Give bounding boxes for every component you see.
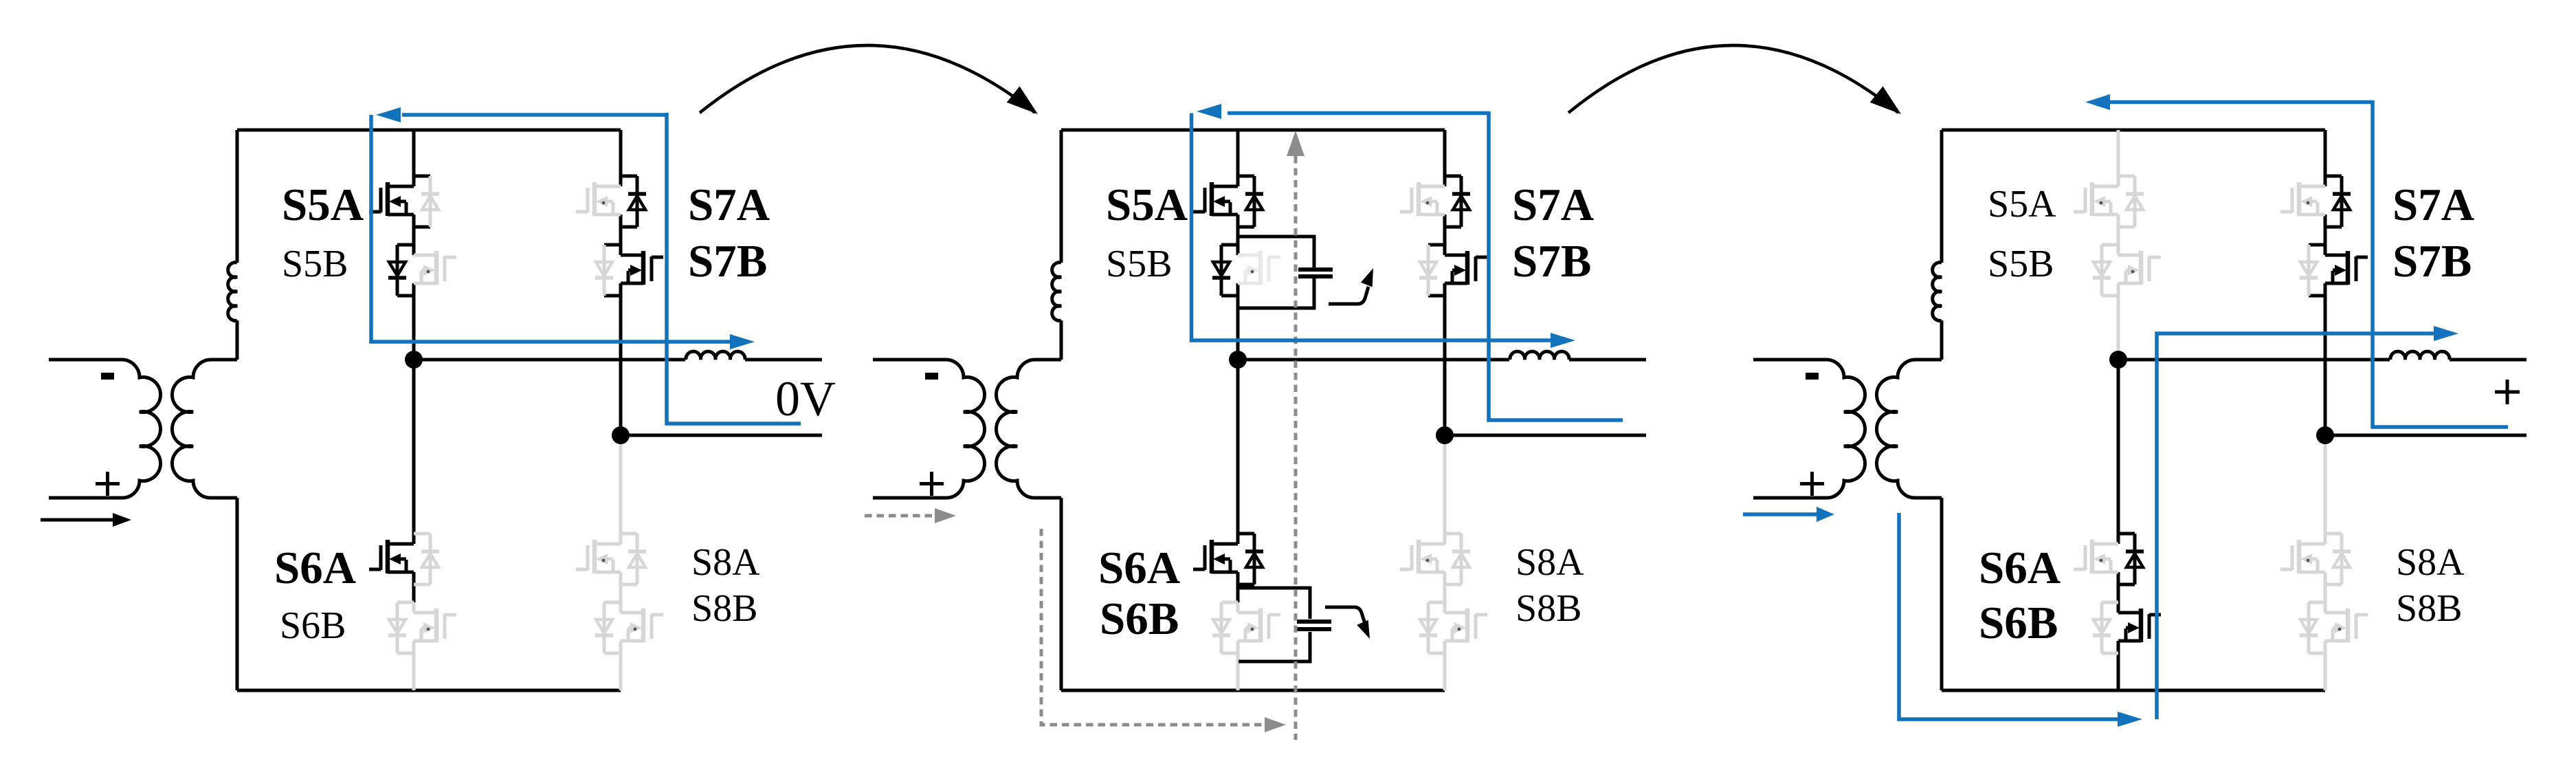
- label: minus polarity of T3 primary: [1806, 373, 1819, 380]
- current path (blue): arrowhead to output inductor (panel 3): [2434, 326, 2458, 341]
- inductor: commutation inductor on left rail (panel 1): [228, 263, 237, 321]
- svg-text:S6B: S6B: [1979, 598, 2058, 648]
- wire: right switch-leg segment y632-791 (panel 1): [619, 435, 623, 544]
- svg-text:S7B: S7B: [1512, 236, 1591, 287]
- wire: left rail to secondary top (panel 3): [1940, 320, 1944, 360]
- wire: output top rail from switch-node A (panel 1): [414, 358, 685, 362]
- diode S7B body diode (panel 1): [595, 245, 613, 296]
- transistor S6A MOSFET (panel 2): [1193, 540, 1238, 573]
- diode S5A body diode (panel 1): [421, 176, 439, 227]
- capacitor: snubber across S5B (panel 2): [1239, 237, 1314, 308]
- wire: S7B branch stubs (panel 3): [2309, 245, 2325, 296]
- arrow: transition from state 1 to state 2: [700, 45, 1035, 113]
- wire: output top rail from switch-node A (panel 2): [1238, 358, 1509, 362]
- node: switch-node B junction (panel 3): [2316, 426, 2334, 444]
- arrow: primary current direction (panel 1): [41, 518, 113, 522]
- inductor: commutation inductor on left rail (panel 2): [1052, 263, 1061, 321]
- current path (blue): arrowhead on bottom run (panel 3): [2118, 712, 2142, 727]
- wire: right switch-leg segment y832-891 (panel 1): [619, 572, 623, 613]
- wire: left switch-leg segment y189-271 (panel 3): [2117, 130, 2120, 186]
- current path (blue): left loop down under transformer (panel 3): [1899, 513, 2118, 719]
- wire: left switch-leg segment y523-791 (panel 2): [1236, 360, 1240, 544]
- label: plus polarity of T2 primary: [920, 472, 944, 496]
- wire: left rail lower to secondary bottom (panel 2): [1060, 498, 1063, 690]
- wire: output top rail right segment (panel 3): [2450, 358, 2527, 362]
- wire: left switch-leg segment y876-891 (panel 2): [1236, 602, 1240, 613]
- wire: left rail to secondary top (panel 2): [1060, 320, 1063, 360]
- label: plus output voltage polarity (panel 3): [2495, 380, 2520, 404]
- diode S8A body diode (panel 1): [628, 534, 646, 584]
- wire: left switch-leg segment y832-876 (panel 1): [412, 572, 416, 602]
- node: switch-node B junction (panel 2): [1436, 426, 1454, 444]
- node: switch-node A junction (panel 1): [405, 351, 423, 369]
- wire: left switch-leg segment y312-371 (panel 2): [1236, 215, 1240, 255]
- svg-text:S6A: S6A: [274, 543, 356, 593]
- svg-text:S6B: S6B: [280, 604, 346, 647]
- wire: bridge left rail upper (panel 3): [1940, 130, 1944, 263]
- wire: S7A branch stubs (panel 1): [621, 176, 637, 227]
- wire: right switch-leg segment y412-632 (panel 2): [1443, 283, 1447, 435]
- label: minus polarity of T2 primary: [925, 373, 938, 380]
- wire: output bottom rail from switch-node B (panel 2): [1445, 434, 1646, 437]
- svg-text:S5A: S5A: [282, 179, 364, 230]
- svg-text:S8A: S8A: [691, 541, 760, 584]
- transistor S5B MOSFET (panel 3): [2118, 251, 2161, 285]
- diode S8A body diode (panel 2): [1452, 534, 1470, 584]
- transistor S7A MOSFET (panel 3): [2280, 182, 2325, 216]
- svg-text:S8B: S8B: [2396, 587, 2463, 630]
- wire: S5A branch stubs (panel 3): [2118, 176, 2135, 227]
- wire: bridge top rail (panel 2): [1061, 129, 1445, 132]
- transistor S6B MOSFET (panel 3): [2118, 609, 2161, 642]
- transistor S5A MOSFET (panel 1): [369, 182, 414, 216]
- transistor S8B MOSFET (panel 1): [621, 609, 663, 642]
- wire: output top rail right segment (panel 1): [745, 358, 822, 362]
- transistor S8A MOSFET (panel 3): [2280, 540, 2325, 573]
- svg-text:S7B: S7B: [2392, 236, 2472, 287]
- wire: S6A branch stubs (panel 1): [414, 534, 430, 584]
- transistor S5B MOSFET (panel 1): [414, 251, 456, 285]
- diode S8B body diode (panel 3): [2300, 602, 2318, 653]
- wire: S6B branch stubs (panel 1): [397, 602, 414, 653]
- wire: right switch-leg segment y189-271 (panel 3): [2324, 130, 2327, 186]
- diode S8A body diode (panel 3): [2333, 534, 2351, 584]
- label: minus polarity of T1 primary: [101, 373, 114, 380]
- wire: right switch-leg segment y832-891 (panel 3): [2324, 572, 2327, 613]
- svg-text:S7B: S7B: [688, 236, 767, 287]
- svg-text:S7A: S7A: [2392, 179, 2474, 230]
- wire: right switch-leg segment y932-1004 (panel 1): [619, 641, 623, 690]
- current path (blue): right branch down to return (panel 3): [2373, 100, 2508, 427]
- wire: left rail lower to secondary bottom (panel 1): [236, 498, 239, 690]
- wire: right switch-leg segment y312-371 (panel 2): [1443, 215, 1447, 255]
- arrow: S5B capacitor voltage rising (panel 2): [1329, 287, 1368, 304]
- wire: left switch-leg segment y876-891 (panel 3): [2117, 602, 2120, 613]
- wire: bridge bottom rail (panel 1): [237, 689, 621, 692]
- wire: right switch-leg segment y412-632 (panel 1): [619, 283, 623, 435]
- node: switch-node A junction (panel 3): [2109, 351, 2127, 369]
- wire: S5B branch stubs (panel 2): [1221, 245, 1238, 296]
- inductor: output filter inductor (panel 2): [1510, 351, 1569, 360]
- diode S7A body diode (panel 2): [1452, 176, 1470, 227]
- wire: right switch-leg segment y312-371 (panel 1): [619, 215, 623, 255]
- svg-text:0V: 0V: [775, 371, 836, 426]
- diode S5B body diode (panel 2): [1212, 245, 1230, 296]
- wire: left switch-leg segment y412-523 (panel 2): [1236, 283, 1240, 360]
- wire: S6B branch stubs (panel 2): [1221, 602, 1238, 653]
- transformer T1 primary winding: [49, 360, 161, 498]
- transformer T3 primary winding: [1753, 360, 1865, 498]
- transistor S7B MOSFET (panel 2): [1445, 251, 1487, 285]
- wire: S5B branch stubs (panel 1): [397, 245, 414, 296]
- wire: left switch-leg segment y832-876 (panel 3): [2117, 572, 2120, 602]
- diode S6B body diode (panel 3): [2093, 602, 2111, 653]
- wire: bridge bottom rail (panel 2): [1061, 689, 1445, 692]
- wire: left switch-leg segment y189-271 (panel 2): [1236, 130, 1240, 186]
- transistor S7A MOSFET (panel 2): [1400, 182, 1445, 216]
- inductor: output filter inductor (panel 3): [2390, 351, 2450, 360]
- capacitor: snubber across S6B (panel 2): [1239, 588, 1310, 661]
- wire: bridge left rail upper (panel 2): [1060, 130, 1063, 263]
- current path (blue): top return run (panel 3): [2110, 100, 2373, 105]
- svg-text:S6A: S6A: [1098, 543, 1180, 593]
- wire: output bottom rail from switch-node B (panel 3): [2325, 434, 2527, 437]
- wire: right switch-leg segment y632-791 (panel 3): [2324, 435, 2327, 544]
- wire: bridge top rail (panel 3): [1942, 129, 2325, 132]
- wire: left switch-leg segment y312-371 (panel 3): [2117, 215, 2120, 255]
- transistor S6B MOSFET (panel 2): [1238, 609, 1280, 642]
- svg-text:S5A: S5A: [1106, 179, 1188, 230]
- wire: left rail lower to secondary bottom (panel 3): [1940, 498, 1944, 690]
- inductor: output filter inductor (panel 1): [686, 351, 745, 360]
- wire: S5A branch stubs (panel 2): [1238, 176, 1254, 227]
- svg-text:S6B: S6B: [1100, 593, 1179, 644]
- diode S6A body diode (panel 2): [1245, 534, 1263, 584]
- wire: left switch-leg segment y932-1004 (panel 1): [412, 641, 416, 690]
- wire: bridge bottom rail (panel 3): [1942, 689, 2325, 692]
- wire: right switch-leg segment y312-371 (panel 3): [2324, 215, 2327, 255]
- current path (blue): arrowhead to output inductor (panel 2): [1551, 333, 1575, 348]
- label: plus polarity of T1 primary: [96, 472, 120, 496]
- wire: output top rail from switch-node A (panel 3): [2118, 358, 2390, 362]
- wire: right switch-leg segment y189-271 (panel 1): [619, 130, 623, 186]
- svg-text:S5B: S5B: [1106, 243, 1173, 285]
- wire: bridge left rail upper (panel 1): [236, 130, 239, 263]
- transistor S5B MOSFET (panel 2): [1238, 251, 1280, 285]
- transistor S6A MOSFET (panel 3): [2074, 540, 2118, 573]
- svg-text:S8B: S8B: [691, 587, 758, 630]
- wire: right switch-leg segment y189-271 (panel 2): [1443, 130, 1447, 186]
- transistor S5A MOSFET (panel 3): [2074, 182, 2118, 216]
- node: switch-node B junction (panel 1): [612, 426, 630, 444]
- wire: S7A branch stubs (panel 3): [2325, 176, 2342, 227]
- wire: left switch-leg segment y876-891 (panel 1): [412, 602, 416, 613]
- wire: bridge top rail (panel 1): [237, 129, 621, 132]
- wire: left switch-leg segment y523-791 (panel 1): [412, 360, 416, 544]
- wire: left switch-leg segment y189-271 (panel 1): [412, 130, 416, 186]
- wire: S8B branch stubs (panel 1): [604, 602, 621, 653]
- diode S5B body diode (panel 3): [2093, 245, 2111, 296]
- wire: left switch-leg segment y932-1004 (panel 3): [2117, 641, 2120, 690]
- wire: left switch-leg segment y412-523 (panel 1): [412, 283, 416, 360]
- node: switch-node A junction (panel 2): [1229, 351, 1247, 369]
- current path (blue): right branch down to return (panel 1): [667, 113, 801, 424]
- transistor S7B MOSFET (panel 3): [2325, 251, 2368, 285]
- diode S5A body diode (panel 2): [1245, 176, 1263, 227]
- wire: S8B branch stubs (panel 3): [2309, 602, 2325, 653]
- current path (blue): arrowhead top-left (panel 2): [1197, 104, 1221, 119]
- wire: left switch-leg segment y312-371 (panel 1): [412, 215, 416, 255]
- diode S7B body diode (panel 2): [1419, 245, 1437, 296]
- diode S5A body diode (panel 3): [2126, 176, 2144, 227]
- transistor S6A MOSFET (panel 1): [369, 540, 414, 573]
- transistor S7B MOSFET (panel 1): [621, 251, 663, 285]
- diode S5B body diode (panel 1): [388, 245, 406, 296]
- wire: output top rail right segment (panel 2): [1569, 358, 1646, 362]
- arrow: transition from state 2 to state 3: [1568, 45, 1898, 113]
- current path (blue): top and left loop (panel 2): [1228, 111, 1489, 116]
- wire: S5B branch stubs (panel 3): [2102, 245, 2118, 296]
- transformer T1 secondary winding: [172, 360, 237, 498]
- current path (blue): arrowhead top-left (panel 1): [376, 107, 401, 122]
- current path (blue): arrowhead top-left (panel 3): [2085, 94, 2110, 110]
- arrow: commutation current rising through leg, dashed vertical (panel 2): [1294, 156, 1298, 740]
- current path (blue): up through S6 leg to output (panel 3): [2157, 333, 2434, 719]
- svg-text:S7A: S7A: [1512, 179, 1594, 230]
- svg-text:S5B: S5B: [1988, 243, 2054, 285]
- svg-text:S8A: S8A: [1515, 541, 1584, 584]
- diode S6B body diode (panel 1): [388, 602, 406, 653]
- wire: S7B branch stubs (panel 2): [1428, 245, 1445, 296]
- transistor S8A MOSFET (panel 2): [1400, 540, 1445, 573]
- svg-text:S6A: S6A: [1979, 543, 2061, 593]
- transistor S6B MOSFET (panel 1): [414, 609, 456, 642]
- wire: S6A branch stubs (panel 3): [2118, 534, 2135, 584]
- transformer T2 secondary winding: [996, 360, 1061, 498]
- transistor S7A MOSFET (panel 1): [576, 182, 621, 216]
- wire: left switch-leg segment y412-523 (panel 3): [2117, 283, 2120, 360]
- diode S7A body diode (panel 3): [2333, 176, 2351, 227]
- diode S6A body diode (panel 3): [2126, 534, 2144, 584]
- diode S6B body diode (panel 2): [1212, 602, 1230, 653]
- svg-text:S7A: S7A: [688, 179, 770, 230]
- wire: S7A branch stubs (panel 2): [1445, 176, 1461, 227]
- transformer T3 secondary winding: [1876, 360, 1942, 498]
- current path (blue): right branch down to return (panel 2): [1489, 111, 1623, 420]
- wire: S6B branch stubs (panel 3): [2102, 602, 2118, 653]
- wire: output bottom rail from switch-node B (panel 1): [621, 434, 822, 437]
- arrow: primary current direction, dashed (panel 2): [865, 514, 933, 518]
- label: plus polarity of T3 primary: [1800, 472, 1824, 496]
- wire: S6A branch stubs (panel 2): [1238, 534, 1254, 584]
- diode S8B body diode (panel 1): [595, 602, 613, 653]
- transistor S5A MOSFET (panel 2): [1193, 182, 1238, 216]
- svg-text:S8A: S8A: [2396, 541, 2465, 584]
- wire: right switch-leg segment y632-791 (panel 2): [1443, 435, 1447, 544]
- wire: left switch-leg segment y832-876 (panel 2): [1236, 572, 1240, 602]
- diode S8B body diode (panel 2): [1419, 602, 1437, 653]
- transistor S8B MOSFET (panel 3): [2325, 609, 2368, 642]
- current path (blue): top and left loop (panel 1): [402, 113, 667, 117]
- wire: S7B branch stubs (panel 1): [604, 245, 621, 296]
- wire: S8B branch stubs (panel 2): [1428, 602, 1445, 653]
- wire: right switch-leg segment y412-632 (panel 3): [2324, 283, 2327, 435]
- wire: S8A branch stubs (panel 2): [1445, 534, 1461, 584]
- svg-text:S5B: S5B: [282, 243, 348, 285]
- transistor S8A MOSFET (panel 1): [576, 540, 621, 573]
- wire: S8A branch stubs (panel 1): [621, 534, 637, 584]
- transformer T2 primary winding: [873, 360, 985, 498]
- wire: S5A branch stubs (panel 1): [414, 176, 430, 227]
- arrow: commutation current loop, dashed L-path (panel 2): [1041, 529, 1263, 725]
- wire: left rail to secondary top (panel 1): [236, 320, 239, 360]
- wire: right switch-leg segment y832-891 (panel 2): [1443, 572, 1447, 613]
- inductor: commutation inductor on left rail (panel 3): [1933, 263, 1942, 321]
- arrow: S6B capacitor voltage rising (panel 2): [1325, 607, 1365, 624]
- svg-text:S5A: S5A: [1988, 183, 2056, 226]
- wire: right switch-leg segment y932-1004 (panel 3): [2324, 641, 2327, 690]
- wire: left switch-leg segment y523-791 (panel 3): [2117, 360, 2120, 544]
- transistor S8B MOSFET (panel 2): [1445, 609, 1487, 642]
- wire: S8A branch stubs (panel 3): [2325, 534, 2342, 584]
- current path (blue): arrowhead to output inductor (panel 1): [730, 334, 755, 349]
- current path (blue): primary current arrow (panel 3): [1743, 512, 1817, 516]
- diode S7B body diode (panel 3): [2300, 245, 2318, 296]
- svg-text:S8B: S8B: [1515, 587, 1582, 630]
- wire: left switch-leg segment y932-1004 (panel 2): [1236, 641, 1240, 690]
- diode S6A body diode (panel 1): [421, 534, 439, 584]
- wire: right switch-leg segment y932-1004 (panel 2): [1443, 641, 1447, 690]
- diode S7A body diode (panel 1): [628, 176, 646, 227]
